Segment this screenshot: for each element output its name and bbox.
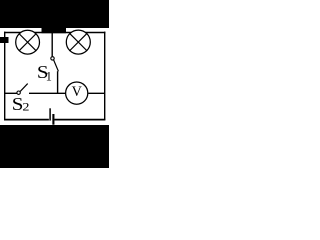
wire: bottom right segment from battery bbox=[54, 119, 105, 121]
battery long plate bbox=[49, 108, 51, 120]
lamp L1: circle bbox=[16, 30, 40, 54]
lamp L2: X diagonal 2 bbox=[69, 33, 87, 51]
switch S1: pivot circle bbox=[51, 57, 54, 60]
wire: bottom left segment to battery bbox=[4, 119, 49, 121]
switch S1: open blade bbox=[54, 60, 59, 71]
wire: S1 branch lower vertical (to middle wire) bbox=[57, 71, 59, 94]
wire: middle horizontal, voltmeter to right wire bbox=[88, 92, 104, 94]
wire: top horizontal bbox=[4, 32, 105, 34]
wire: middle horizontal, S2 contact to voltmeter bbox=[29, 92, 66, 94]
switch S2: pivot circle bbox=[17, 91, 20, 94]
white content background bbox=[0, 0, 109, 168]
wire: S1 branch upper vertical (from blob) bbox=[51, 33, 53, 57]
switch S2: open blade bbox=[20, 84, 28, 92]
lamp L2: circle bbox=[66, 30, 90, 54]
wire: left vertical bbox=[4, 32, 6, 120]
voltmeter U1: circle bbox=[66, 82, 88, 104]
svg-text:2: 2 bbox=[22, 99, 29, 113]
stray black block artifact (left edge) bbox=[0, 37, 9, 43]
bottom black band bbox=[0, 125, 109, 168]
svg-text:V: V bbox=[72, 84, 83, 100]
battery short thick plate bbox=[52, 114, 54, 125]
lamp L1: X diagonal 2 bbox=[19, 34, 36, 51]
wire: middle horizontal, left-wire to S2 bbox=[5, 92, 17, 94]
svg-text:1: 1 bbox=[46, 70, 52, 84]
lamp L2: X diagonal 1 bbox=[69, 33, 87, 51]
black blob bridging band to top wire between lamps bbox=[42, 27, 67, 33]
top black band bbox=[0, 0, 109, 28]
lamp L1: X diagonal 1 bbox=[19, 34, 36, 51]
wire: right vertical bbox=[104, 32, 106, 120]
